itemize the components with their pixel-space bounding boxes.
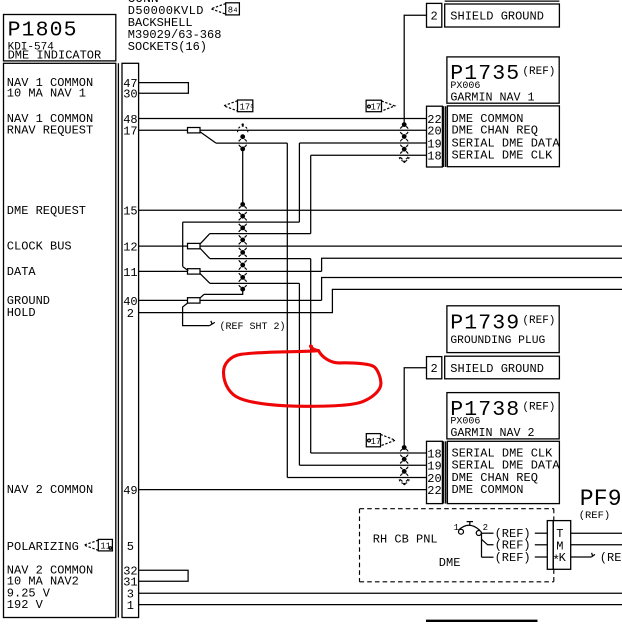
- connector P1738 pin box: [427, 441, 443, 503]
- svg-text:2: 2: [127, 307, 134, 321]
- shield tail arc below: [399, 157, 409, 161]
- svg-text:(REF SHT 2): (REF SHT 2): [220, 321, 286, 333]
- wire pin1 192V to right edge: [139, 604, 622, 606]
- wire branch to REF row3: [482, 556, 494, 558]
- wire data upper run leftward: [183, 221, 300, 223]
- shield ground 2 pin box P1739: [427, 357, 442, 379]
- TMK connector strip: [547, 521, 553, 570]
- shield drain dot: [402, 469, 407, 474]
- splice S11: [188, 269, 201, 274]
- svg-text:2: 2: [431, 362, 438, 376]
- wire trunk B to P1738-19: [299, 464, 426, 466]
- wire splice S17 branch diagonal down: [200, 132, 216, 143]
- wire trunk B lower vertical: [298, 283, 300, 465]
- wire P1739 pin2 to shield drain: [404, 368, 426, 448]
- wire splice S17 to P1735-20: [200, 129, 427, 131]
- shield circle on wire 233.6: [239, 229, 247, 237]
- splice S40: [188, 298, 201, 303]
- shield drain dot: [402, 122, 407, 127]
- wire splice S11 straight branch: [200, 270, 322, 272]
- shield circle on wire 477.5: [400, 473, 408, 481]
- svg-text:15: 15: [123, 205, 137, 219]
- svg-text:DME COMMON: DME COMMON: [452, 483, 524, 497]
- shield drain dot: [402, 134, 407, 139]
- svg-text:(REF): (REF): [495, 551, 531, 565]
- flag 84, left pointing dashed triangle with box: [211, 3, 239, 16]
- wire splice S11 branch diagonal down: [200, 273, 210, 283]
- flag 17a upper, left pointing dashed triangle with box: [224, 100, 254, 112]
- svg-text:SERIAL DME CLK: SERIAL DME CLK: [452, 149, 554, 163]
- wire REF row3 to TMK strip: [535, 556, 548, 558]
- connector P1738 strip lines: [443, 441, 445, 503]
- connector P1735 label box: [447, 106, 559, 167]
- shield circle on wire 258.6: [239, 254, 247, 262]
- wire ground jog up to right edge: [322, 278, 622, 301]
- svg-text:HOLD: HOLD: [7, 306, 36, 320]
- svg-text:18: 18: [427, 150, 441, 164]
- svg-text:PF9: PF9: [580, 486, 622, 512]
- shield drain dot: [240, 214, 245, 219]
- svg-text:17: 17: [123, 125, 137, 139]
- shield circle on wire 453: [400, 449, 408, 457]
- svg-text:1: 1: [454, 523, 459, 533]
- wire splice S40 straight branch: [200, 299, 322, 301]
- wire REF row1 to TMK strip: [535, 532, 548, 534]
- wire pin11 DATA to splice: [139, 270, 188, 272]
- shield drain dot: [240, 147, 245, 152]
- wire pin3 9.25V to right edge: [139, 592, 622, 594]
- svg-text:17: 17: [240, 102, 251, 112]
- svg-text:DME REQUEST: DME REQUEST: [7, 204, 86, 218]
- svg-text:CLOCK BUS: CLOCK BUS: [7, 240, 72, 254]
- wire pin40 GROUND to splice: [139, 299, 188, 301]
- svg-text:a: a: [250, 103, 254, 110]
- wire pin48 NAV1 COMMON to P1735-22: [139, 118, 427, 120]
- connector P1739 title box: [447, 306, 559, 353]
- shield circle on wire 465.2: [400, 461, 408, 469]
- flag 17 right-pointing near P1738: [366, 434, 395, 447]
- svg-text:P1805: P1805: [8, 18, 78, 42]
- shield drain dot: [240, 238, 245, 243]
- svg-text:SOCKETS(16): SOCKETS(16): [128, 40, 207, 54]
- shield ground top label box: [445, 4, 560, 27]
- wire trunk C upper vertical: [310, 155, 312, 233]
- shield tail arc below P1738: [399, 479, 409, 483]
- svg-text:12: 12: [123, 241, 137, 255]
- wire TMK K row arrow: [571, 556, 592, 558]
- svg-text:17: 17: [371, 103, 382, 113]
- svg-text:DATA: DATA: [7, 265, 37, 279]
- shield drain dot: [240, 275, 245, 280]
- wire P1735-19 horizontal: [299, 142, 426, 144]
- wire splice S12 straight to right edge: [200, 245, 622, 247]
- wire pin2 HOLD jog up to right edge: [139, 289, 622, 312]
- wire jumper loop pin47 to pin30: [139, 83, 189, 94]
- connector P1805 inner parallel line: [117, 63, 119, 617]
- shield drain vertical long: [242, 149, 244, 205]
- shield circle on wire 210: [239, 206, 247, 214]
- wire pin49 NAV2 COMMON to P1738-22: [139, 489, 427, 491]
- shield circle on wire 143 right: [400, 139, 408, 147]
- svg-text:5: 5: [127, 540, 134, 554]
- svg-text:DME: DME: [439, 556, 461, 570]
- wire splice S12 branch diagonal down: [200, 248, 210, 259]
- wire data jog up: [322, 258, 622, 271]
- svg-text:11: 11: [123, 266, 137, 280]
- svg-text:22: 22: [427, 484, 441, 498]
- TMK connector box: [553, 521, 571, 570]
- wire jumper loop pin32 to pin31: [139, 570, 189, 581]
- svg-text:1: 1: [127, 599, 134, 613]
- shield circle on wire 271.4: [239, 267, 247, 275]
- arrow head K row: [591, 554, 595, 557]
- flag 17 right-pointing near P1735: [366, 100, 395, 112]
- wire breaker drop vertical: [481, 533, 483, 557]
- wire pin17 RNAV REQUEST to splice: [139, 129, 188, 131]
- connector P1735 title box: [447, 57, 559, 103]
- shield drain dot: [402, 457, 407, 462]
- svg-text:RNAV REQUEST: RNAV REQUEST: [7, 124, 93, 138]
- circuit breaker contact circle 2: [476, 531, 481, 536]
- wire breaker to REF row1: [482, 532, 494, 534]
- connector P1735 pin box: [427, 106, 443, 167]
- svg-text:POLARIZING: POLARIZING: [7, 540, 79, 554]
- svg-text:192 V: 192 V: [7, 598, 44, 612]
- wire trunk A to P1738-20: [287, 477, 426, 479]
- shield circle on wire 155.3 right: [400, 151, 408, 159]
- shield circle on wire 130.2 right: [400, 126, 408, 134]
- svg-text:2: 2: [483, 523, 488, 533]
- svg-text:4: 4: [233, 7, 237, 15]
- svg-text:K: K: [559, 551, 567, 565]
- svg-text:17: 17: [371, 437, 382, 447]
- wire branch to REF row2 diagonal jog: [482, 539, 494, 545]
- connector P1805 title box: [4, 15, 116, 61]
- svg-text:(REF): (REF): [522, 402, 555, 414]
- connector P1805 pin box: [122, 63, 139, 617]
- partial thick line bottom: [426, 620, 538, 622]
- splice S12: [188, 243, 201, 248]
- shield arc tail on wire 130.2: [238, 126, 248, 132]
- wire shield drain to pin2 top: [404, 15, 426, 124]
- connector P1735 strip lines: [443, 106, 445, 167]
- shield ground top pin-2 box: [427, 3, 442, 27]
- wire diagonal into splice S11: [183, 267, 189, 271]
- wire drain run to shield chain bottom: [204, 289, 243, 294]
- svg-text:8: 8: [228, 5, 233, 15]
- svg-text:30: 30: [123, 88, 137, 102]
- wire splice S40 diagonal to drain: [200, 294, 204, 298]
- circuit breaker arc: [459, 525, 480, 530]
- red hand-drawn circle annotation: [223, 346, 380, 406]
- svg-text:RH CB PNL: RH CB PNL: [373, 533, 438, 547]
- svg-text:49: 49: [123, 484, 137, 498]
- svg-text:2: 2: [431, 10, 438, 24]
- wire data riser left: [182, 222, 184, 267]
- wire diagonal into splice S12 top: [200, 234, 210, 245]
- connector P1738 label box: [447, 441, 559, 503]
- svg-text:P1739: P1739: [450, 311, 520, 335]
- shield circle on chan-req wire 143: [239, 139, 247, 147]
- circuit breaker contact circle 1: [459, 529, 464, 534]
- circuit breaker T handle: [467, 521, 473, 523]
- shield drain tail dot top: [242, 123, 244, 125]
- shield drain dot: [240, 134, 245, 139]
- wire TMK T row to right edge: [571, 532, 622, 534]
- wire trunk C lower vertical: [310, 259, 312, 453]
- svg-text:(REF): (REF): [522, 315, 555, 327]
- wire data lower run to trunk B: [210, 282, 299, 284]
- wire trunk C to P1738-18: [311, 452, 427, 454]
- wire splice S40 branch to ref sht 2: [183, 303, 210, 326]
- wire trunk B upper vertical: [298, 143, 300, 222]
- shield circle on wire 246.1: [239, 242, 247, 250]
- wire REF row2 to TMK strip: [535, 544, 548, 546]
- shield drain dot: [402, 445, 407, 450]
- partial cut box line above shield ground box: [445, 0, 560, 2]
- svg-text:SHIELD GROUND: SHIELD GROUND: [450, 362, 544, 376]
- dashed box RH CB PNL: [360, 509, 555, 582]
- wire pin12 CLOCK BUS to splice: [139, 245, 188, 247]
- shield tail dot: [403, 161, 405, 163]
- svg-text:10 MA NAV 1: 10 MA NAV 1: [7, 87, 86, 101]
- wire pin15 DME REQUEST to right edge: [139, 209, 622, 211]
- splice S17: [188, 128, 201, 133]
- flag 11 polarizing, left pointing dashed triangle with box: [84, 539, 112, 551]
- wire trunk A vertical chan req to P1738: [286, 143, 288, 477]
- shield drain dot bottom: [240, 287, 245, 292]
- wire chan-req run to trunk A: [216, 142, 287, 144]
- svg-text:SHIELD GROUND: SHIELD GROUND: [450, 10, 544, 24]
- connector P1805 signal-name box: [4, 63, 116, 617]
- shield drain dot: [240, 226, 245, 231]
- wire TMK M row to right edge: [571, 544, 622, 546]
- svg-text:NAV 2 COMMON: NAV 2 COMMON: [7, 483, 93, 497]
- shield drain dot: [240, 250, 245, 255]
- connector P1738 title box: [447, 393, 559, 439]
- shield tail dot P1738: [403, 483, 405, 485]
- shield drain dot: [402, 147, 407, 152]
- svg-text:GARMIN NAV 2: GARMIN NAV 2: [450, 426, 534, 440]
- wire clk upper run leftward: [210, 233, 311, 235]
- arrow head ref sht 2: [210, 322, 215, 325]
- shield drain dot: [240, 263, 245, 268]
- svg-text:(RE: (RE: [600, 551, 622, 565]
- shield circle on wire 222: [239, 218, 247, 226]
- wire clk lower run to trunk C: [210, 258, 311, 260]
- svg-text:(REF): (REF): [522, 66, 555, 78]
- shield drain dot: [240, 202, 245, 207]
- svg-text:GROUNDING PLUG: GROUNDING PLUG: [450, 335, 545, 347]
- svg-text:(REF): (REF): [579, 510, 611, 522]
- wire P1735-18 horizontal: [311, 154, 427, 156]
- shield ground 2 label box P1739: [445, 356, 560, 379]
- svg-text:DME INDICATOR: DME INDICATOR: [8, 49, 102, 63]
- shield circle on wire 283.4: [239, 279, 247, 287]
- svg-text:GARMIN NAV 1: GARMIN NAV 1: [450, 90, 534, 104]
